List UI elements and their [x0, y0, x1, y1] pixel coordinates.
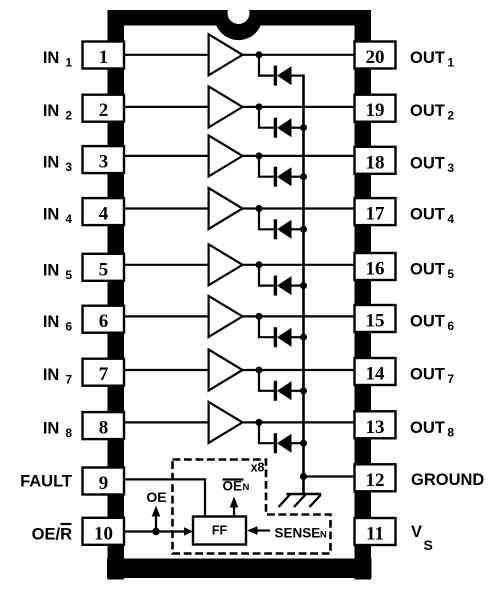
- pin 5 box: [83, 254, 125, 281]
- diode D2 (clamp, cathode to output): [275, 118, 291, 138]
- label IN 3: [43, 154, 73, 175]
- wire: buffer U4 output to pin 17: [243, 207, 355, 209]
- node: clamp bus junction at D6: [300, 334, 307, 341]
- buffer U1: [209, 34, 243, 75]
- wire: diode D8 anode to clamp bus: [292, 442, 304, 444]
- svg-text:18: 18: [366, 152, 385, 173]
- svg-text:5: 5: [99, 259, 109, 280]
- svg-text:14: 14: [366, 364, 386, 385]
- wire: diode D5 anode to clamp bus: [292, 285, 304, 287]
- node: output 2 junction dot: [256, 103, 263, 110]
- pin 12 box: [355, 464, 396, 491]
- svg-text:15: 15: [366, 311, 385, 332]
- wire: pin 1 input to buffer U1: [124, 54, 208, 56]
- wire: common clamp bus: [302, 74, 305, 494]
- pin 20 box: [355, 42, 396, 69]
- wire: pin 8 input to buffer U8: [124, 421, 208, 423]
- pin 11 box: [355, 518, 396, 545]
- svg-text:12: 12: [366, 470, 385, 491]
- wire: pin 6 input to buffer U6: [124, 315, 208, 317]
- wire: diode D1 anode to clamp bus: [292, 74, 304, 76]
- svg-text:10: 10: [94, 523, 113, 544]
- pin 3 box: [83, 146, 125, 173]
- node: OE junction dot: [152, 528, 160, 536]
- svg-text:S: S: [424, 537, 433, 553]
- index notch: [215, 2, 263, 40]
- node: clamp bus junction at D8: [300, 440, 307, 447]
- label x8: [251, 461, 265, 475]
- buffer U3: [209, 135, 243, 176]
- label IN 2: [43, 102, 73, 123]
- wire: buffer U3 output to pin 18: [243, 155, 355, 157]
- OE arrow: [152, 506, 161, 532]
- diode D3 (clamp, cathode to output): [275, 167, 291, 187]
- buffer U5: [209, 244, 243, 285]
- node: clamp bus junction at D5: [300, 282, 307, 289]
- pin 9 box: [83, 468, 125, 495]
- buffer U2: [209, 86, 243, 127]
- wire: buffer U2 output to pin 19: [243, 106, 355, 108]
- flip-flop FF: [193, 517, 246, 545]
- svg-text:9: 9: [99, 473, 109, 494]
- wire: pin 10 (OE/R) to FF input: [124, 527, 193, 536]
- label OEN (overlined): [223, 479, 250, 494]
- pin 13 box: [355, 411, 396, 438]
- svg-text:2: 2: [99, 100, 109, 121]
- IC body outline (DIP-20 package): [107, 10, 372, 580]
- svg-text:13: 13: [366, 417, 385, 438]
- buffer U4: [209, 188, 243, 229]
- svg-text:x8: x8: [251, 461, 265, 475]
- label OUT 2: [410, 102, 454, 123]
- label OUT 5: [410, 261, 454, 282]
- label OUT 6: [410, 313, 454, 334]
- svg-text:3: 3: [99, 152, 109, 173]
- wire: pin 3 input to buffer U3: [124, 155, 208, 157]
- node: clamp bus junction at D7: [300, 387, 307, 394]
- label SENSEN: [275, 526, 328, 541]
- diode D7 (clamp, cathode to output): [275, 381, 291, 401]
- diode D5 (clamp, cathode to output): [275, 276, 291, 296]
- pin 1 box: [83, 42, 125, 69]
- pin 15 box: [355, 305, 396, 332]
- label FAULT: [20, 473, 72, 491]
- node: output 3 junction dot: [256, 152, 263, 159]
- node: output 5 junction dot: [256, 261, 263, 268]
- buffer U8: [209, 402, 243, 443]
- buffer U7: [209, 350, 243, 391]
- wire: buffer U6 output to pin 15: [243, 315, 355, 317]
- ground symbol: [279, 494, 322, 507]
- svg-text:V: V: [411, 523, 422, 541]
- diode D6 (clamp, cathode to output): [275, 327, 291, 347]
- svg-text:4: 4: [99, 204, 109, 225]
- svg-text:SENSE: SENSE: [275, 526, 321, 541]
- wire: output 6 down to diode D6: [259, 316, 274, 337]
- wire: diode D2 anode to clamp bus: [292, 127, 304, 129]
- node: output 4 junction dot: [256, 205, 263, 212]
- wire: buffer U8 output to pin 13: [243, 421, 355, 423]
- wire: pin 4 input to buffer U4: [124, 207, 208, 209]
- wire: diode D3 anode to clamp bus: [292, 176, 304, 178]
- wire: pin 5 input to buffer U5: [124, 264, 208, 266]
- svg-text:FAULT: FAULT: [20, 473, 72, 491]
- label IN 6: [43, 313, 73, 334]
- svg-text:16: 16: [366, 259, 385, 280]
- wire: output 2 down to diode D2: [259, 107, 274, 128]
- wire: output 1 down to diode D1: [259, 55, 274, 76]
- wire: output 7 down to diode D7: [259, 370, 274, 391]
- svg-text:1: 1: [99, 47, 109, 68]
- wire: buffer U5 output to pin 16: [243, 264, 355, 266]
- label IN 1: [43, 49, 73, 70]
- label IN 8: [43, 420, 73, 441]
- label OUT 1: [410, 49, 454, 70]
- label OUT 3: [410, 154, 454, 175]
- pin 19 box: [355, 95, 396, 122]
- diode D4 (clamp, cathode to output): [275, 219, 291, 239]
- node: bus junction to GROUND pin: [300, 473, 307, 480]
- label OUT 4: [410, 206, 454, 227]
- svg-text:20: 20: [366, 47, 385, 68]
- label IN 7: [43, 366, 73, 387]
- wire: output 5 down to diode D5: [259, 265, 274, 286]
- svg-text:OE: OE: [146, 489, 166, 505]
- node: output 7 junction dot: [256, 367, 263, 374]
- wire: buffer U7 output to pin 14: [243, 369, 355, 371]
- pin 6 box: [83, 306, 125, 333]
- pin 2 box: [83, 95, 125, 122]
- label OUT 8: [410, 419, 454, 440]
- svg-text:19: 19: [366, 100, 385, 121]
- buffer U6: [209, 296, 243, 337]
- svg-text:GROUND: GROUND: [411, 471, 484, 489]
- label IN 4: [43, 206, 73, 227]
- label GROUND: [411, 471, 484, 489]
- wire: buffer U1 output to pin 20: [243, 54, 355, 56]
- svg-text:OE/R: OE/R: [32, 526, 72, 544]
- label VS: [411, 523, 433, 553]
- svg-text:6: 6: [99, 311, 109, 332]
- svg-text:17: 17: [366, 204, 386, 225]
- node: output 6 junction dot: [256, 313, 263, 320]
- pin 4 box: [83, 198, 125, 225]
- label IN 5: [43, 261, 73, 282]
- wire: bus to pin 12 (GROUND): [304, 475, 355, 477]
- node: output 8 junction dot: [256, 419, 263, 426]
- SENSEN input arrow: [247, 526, 270, 535]
- diode D1 (clamp, cathode to output): [275, 66, 291, 86]
- wire: diode D4 anode to clamp bus: [292, 228, 304, 230]
- wire: output 3 down to diode D3: [259, 156, 274, 177]
- pin 16 box: [355, 253, 396, 280]
- label OE/R (R overlined): [32, 524, 72, 544]
- pin 7 box: [83, 359, 125, 386]
- node: clamp bus junction at D4: [300, 226, 307, 233]
- wire: output 8 down to diode D8: [259, 422, 274, 443]
- wire: diode D6 anode to clamp bus: [292, 336, 304, 338]
- svg-text:8: 8: [99, 418, 109, 439]
- pin 17 box: [355, 198, 396, 225]
- svg-text:N: N: [243, 482, 250, 493]
- node: clamp bus junction at D3: [300, 173, 307, 180]
- wire: pin 7 input to buffer U7: [124, 369, 208, 371]
- svg-text:OE: OE: [223, 479, 243, 494]
- pin 18 box: [355, 147, 396, 174]
- pin 8 box: [83, 412, 125, 439]
- pin 14 box: [355, 358, 396, 385]
- node: output 1 junction dot: [256, 51, 263, 58]
- svg-text:N: N: [320, 530, 327, 541]
- label OE: [146, 489, 166, 505]
- wire: output 4 down to diode D4: [259, 209, 274, 230]
- label OUT 7: [410, 366, 454, 387]
- svg-text:7: 7: [99, 364, 109, 385]
- wire: pin 9 (FAULT) to FF: [124, 479, 205, 516]
- OEN output arrow: [230, 497, 239, 517]
- node: clamp bus junction at D2: [300, 124, 307, 131]
- svg-text:11: 11: [366, 524, 384, 545]
- x8 block dashed boundary: [173, 460, 331, 554]
- wire: diode D7 anode to clamp bus: [292, 390, 304, 392]
- wire: pin 2 input to buffer U2: [124, 106, 208, 108]
- svg-text:FF: FF: [212, 524, 228, 538]
- diode D8 (clamp, cathode to output): [275, 433, 291, 453]
- pin 10 box: [83, 518, 125, 545]
